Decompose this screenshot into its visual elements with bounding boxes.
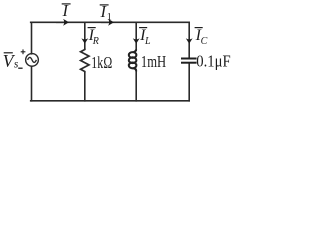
wire capacitor branch upper [188,22,190,58]
inductor L 1mH [129,50,137,72]
svg-text:1mH: 1mH [141,53,167,71]
current I arrow (top wire, left) [56,19,69,26]
svg-text:0.1μF: 0.1μF [196,53,231,71]
source plus sign [21,49,26,54]
source Vs (AC source circle) [26,54,39,67]
wire left vertical upper (source to top wire) [31,22,33,54]
source minus sign [18,67,22,69]
wire inductor branch lower [135,72,137,101]
current IC arrow (capacitor branch) [186,38,193,44]
wire resistor branch lower [84,73,86,101]
current I1 arrow (top wire, right) [101,19,114,26]
svg-text:R: R [92,36,99,47]
wire bottom horizontal [31,100,190,102]
wire resistor branch upper [84,22,86,49]
capacitor C plates [181,59,197,63]
svg-text:1: 1 [107,12,112,23]
svg-text:L: L [144,36,151,47]
resistor R 1k [81,49,89,73]
svg-text:C: C [201,36,208,47]
current IL arrow (inductor branch) [133,38,140,44]
current IR arrow (resistor branch) [81,38,88,44]
wire top horizontal [31,21,190,23]
wire left vertical lower (source to bottom wire) [31,67,33,101]
wire capacitor branch lower [188,63,190,101]
svg-text:s: s [14,59,19,71]
wire inductor branch upper [135,22,137,50]
svg-text:1kΩ: 1kΩ [91,54,112,72]
